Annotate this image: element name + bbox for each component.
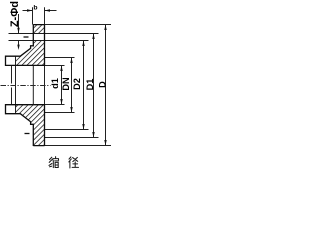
thick outline upper half — [6, 24, 45, 146]
ext line d1 bottom — [45, 104, 65, 106]
svg-text:D1: D1 — [85, 79, 95, 91]
DN arrows — [70, 58, 72, 64]
arrows — [17, 9, 106, 145]
plate right face in bore — [44, 65, 46, 104]
ext line d1 top — [45, 65, 65, 67]
dim line DN — [71, 58, 73, 113]
dim line D2 — [83, 41, 85, 130]
bore step line — [15, 56, 17, 113]
thin lines — [12, 7, 112, 145]
bore inner edge lower — [11, 88, 13, 105]
dim line D1 — [93, 34, 95, 138]
bolt hole center dash bottom — [25, 133, 30, 135]
hatch lower plate (no hole) + hub/taper — [16, 105, 45, 146]
ext line DN bottom — [45, 112, 75, 114]
b ext left — [32, 7, 34, 24]
plate left face in bore — [32, 65, 34, 104]
phi-d dim line upper — [18, 14, 20, 34]
chinese caption: 径 — [69, 157, 79, 168]
phi-d upper arrow (down) — [17, 28, 19, 34]
phi-d lower arrow (up) — [17, 45, 19, 50]
bolt hole center dash top — [24, 36, 29, 38]
svg-text:d1: d1 — [50, 78, 60, 89]
ext line DN top — [45, 57, 75, 59]
D arrows — [104, 25, 106, 31]
bore inner edge upper — [11, 65, 13, 83]
d1 arrows — [60, 66, 62, 72]
dim line D — [105, 25, 107, 146]
svg-text:b: b — [33, 4, 37, 11]
hatch upper plate below hole + hub/taper — [16, 41, 45, 66]
ext line D bottom — [45, 145, 112, 147]
text labels — [9, 1, 108, 91]
ext line D1 bottom — [45, 137, 99, 139]
thick outline lower half — [6, 105, 45, 146]
svg-text:D: D — [97, 81, 107, 88]
dim line d1 — [61, 66, 63, 105]
D1 arrows — [92, 34, 94, 40]
ext line D2 bottom — [45, 129, 89, 131]
bolt hole edge / D1 ext line top — [9, 33, 99, 35]
svg-text:Z-Φd: Z-Φd — [9, 1, 21, 27]
b dim line right — [45, 10, 57, 12]
chinese caption: 缩 — [49, 157, 59, 168]
b left arrow — [27, 9, 33, 11]
phi-d dim line lower tail — [18, 41, 20, 46]
b dim line left — [23, 10, 33, 12]
svg-text:DN: DN — [61, 77, 71, 91]
ext line D top — [45, 24, 112, 26]
bolt hole edge / D2 ext line top — [9, 40, 89, 42]
b ext right — [44, 7, 46, 24]
centerline — [1, 85, 51, 87]
b right arrow — [45, 9, 51, 11]
D2 arrows — [82, 41, 84, 47]
svg-text:D2: D2 — [72, 78, 82, 90]
hatch upper plate above bolt hole — [33, 25, 45, 34]
